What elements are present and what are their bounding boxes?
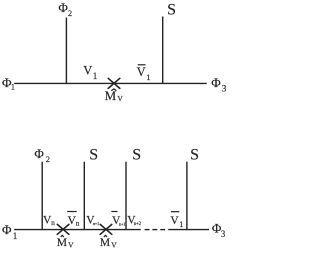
svg-text:V: V bbox=[68, 240, 74, 249]
svg-text:V: V bbox=[111, 240, 117, 249]
measurement M_V (top) bbox=[105, 88, 124, 103]
svg-text:3: 3 bbox=[222, 85, 227, 95]
svg-text:Φ: Φ bbox=[58, 0, 68, 15]
svg-text:S: S bbox=[167, 2, 176, 19]
gate V1-bar bbox=[137, 65, 151, 82]
wire: top ancilla Φ2 vertical bbox=[65, 18, 67, 84]
svg-text:V: V bbox=[137, 65, 146, 79]
node Φ2 (bottom ancilla label) bbox=[34, 146, 50, 164]
gate Vn-bar bbox=[67, 212, 80, 228]
wire: bottom rail solid right part bbox=[168, 229, 209, 231]
svg-text:n+1: n+1 bbox=[119, 221, 125, 226]
wire: bottom rail dashed continuation bbox=[145, 229, 166, 231]
beamsplitter X (top) bbox=[108, 78, 120, 88]
svg-text:1: 1 bbox=[11, 81, 15, 91]
node Φ1 (bottom left input) bbox=[2, 222, 17, 241]
svg-text:3: 3 bbox=[221, 229, 226, 239]
svg-text:Φ: Φ bbox=[2, 222, 12, 237]
svg-text:S: S bbox=[89, 147, 98, 164]
svg-text:1: 1 bbox=[93, 71, 98, 81]
svg-text:2: 2 bbox=[46, 154, 50, 164]
gate V1 bbox=[83, 64, 97, 81]
gate V1-bar (final gate of chain) bbox=[170, 212, 183, 229]
svg-text:n+1: n+1 bbox=[93, 221, 99, 226]
wire: top squeezed-state S vertical bbox=[162, 17, 164, 84]
wire: squeezed-state S vertical #1 bbox=[83, 162, 85, 230]
gate Vn+2 bbox=[127, 214, 141, 227]
svg-text:n+2: n+2 bbox=[134, 222, 142, 227]
svg-text:S: S bbox=[132, 147, 141, 164]
wire: squeezed-state S vertical #2 bbox=[125, 162, 127, 230]
measurement M_V #1 (bottom) bbox=[57, 235, 74, 249]
node Φ3 (bottom right output) bbox=[212, 220, 226, 239]
svg-text:M: M bbox=[105, 88, 117, 103]
svg-text:1: 1 bbox=[179, 220, 183, 229]
svg-text:1: 1 bbox=[13, 231, 18, 241]
gate Vn bbox=[43, 214, 55, 227]
svg-text:V: V bbox=[83, 64, 92, 78]
beamsplitter X2 (bottom) bbox=[100, 224, 112, 234]
svg-text:M: M bbox=[100, 237, 110, 249]
svg-text:2: 2 bbox=[68, 8, 72, 18]
svg-text:1: 1 bbox=[146, 72, 150, 82]
beamsplitter X1 (bottom) bbox=[57, 224, 69, 234]
svg-text:M: M bbox=[57, 237, 67, 249]
svg-text:V: V bbox=[117, 94, 123, 103]
svg-text:n: n bbox=[76, 220, 80, 228]
svg-text:S: S bbox=[190, 147, 199, 164]
node Φ3 (top right output) bbox=[211, 75, 226, 95]
svg-text:V: V bbox=[170, 215, 179, 227]
svg-text:n: n bbox=[51, 219, 55, 227]
gate Vn+1-bar bbox=[111, 212, 125, 228]
wire: bottom ancilla Φ2 vertical bbox=[41, 162, 43, 230]
svg-text:Φ: Φ bbox=[34, 146, 44, 161]
node Φ1 (top left input) bbox=[2, 75, 15, 91]
measurement M_V #2 (bottom) bbox=[100, 235, 117, 249]
wire: squeezed-state S vertical #3 bbox=[186, 162, 188, 230]
wire: top horizontal rail bbox=[14, 82, 207, 84]
wire: bottom horizontal rail (solid left part) bbox=[14, 229, 141, 231]
svg-text:Φ: Φ bbox=[211, 75, 221, 90]
gate Vn+1 bbox=[86, 214, 99, 226]
node Φ2 (top ancilla label) bbox=[58, 0, 72, 18]
